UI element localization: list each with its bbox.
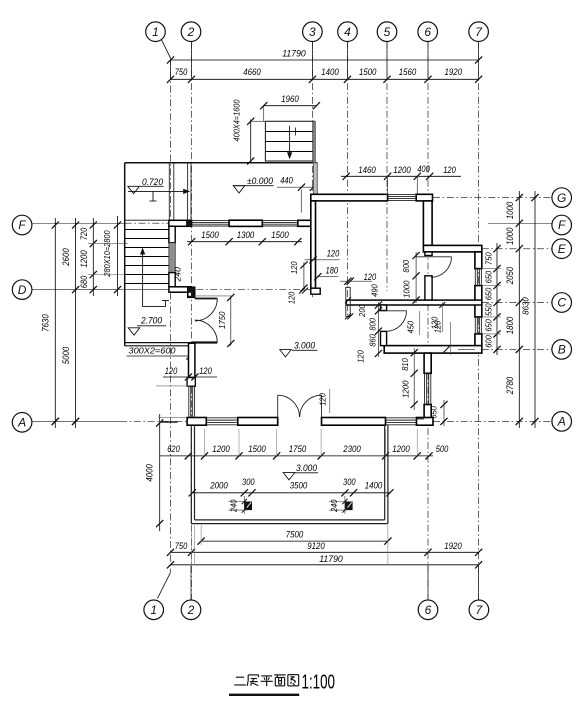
svg-text:1920: 1920 — [445, 67, 463, 77]
svg-text:1200: 1200 — [393, 165, 411, 175]
svg-text:2780: 2780 — [505, 376, 515, 395]
svg-text:620: 620 — [167, 444, 180, 454]
svg-text:1800: 1800 — [505, 316, 515, 334]
svg-text:D: D — [18, 283, 27, 297]
svg-text:440: 440 — [280, 176, 293, 186]
svg-text:3500: 3500 — [290, 481, 308, 491]
svg-text:180: 180 — [326, 266, 339, 276]
svg-text:120: 120 — [356, 350, 366, 363]
svg-text:240: 240 — [330, 499, 339, 513]
svg-text:650: 650 — [483, 319, 493, 332]
svg-text:280X10=2800: 280X10=2800 — [103, 230, 112, 277]
svg-text:2: 2 — [187, 25, 195, 39]
svg-text:1400: 1400 — [365, 481, 383, 491]
svg-text:1200: 1200 — [79, 250, 89, 268]
svg-text:860: 860 — [368, 334, 378, 347]
svg-text:F: F — [18, 218, 26, 232]
svg-text:1: 1 — [152, 25, 159, 39]
svg-text:5000: 5000 — [61, 346, 71, 364]
svg-text:680: 680 — [79, 275, 89, 288]
svg-text:3: 3 — [309, 25, 316, 39]
svg-text:240: 240 — [173, 267, 183, 283]
svg-text:1500: 1500 — [271, 230, 289, 240]
svg-text:750: 750 — [175, 67, 188, 77]
svg-text:650: 650 — [429, 406, 439, 419]
svg-text:3.000: 3.000 — [296, 463, 317, 473]
svg-text:750: 750 — [175, 541, 188, 551]
svg-text:8630: 8630 — [522, 297, 531, 315]
svg-text:1200: 1200 — [212, 444, 230, 454]
svg-text:720: 720 — [79, 227, 89, 240]
svg-text:600: 600 — [483, 335, 493, 348]
svg-text:2600: 2600 — [61, 248, 71, 267]
svg-text:7630: 7630 — [40, 314, 50, 332]
svg-text:C: C — [557, 296, 566, 310]
svg-text:2050: 2050 — [505, 266, 515, 285]
svg-text:450: 450 — [406, 321, 416, 334]
svg-text:7500: 7500 — [286, 530, 304, 540]
svg-text:A: A — [17, 416, 26, 430]
svg-text:4660: 4660 — [243, 67, 261, 77]
svg-text:1200: 1200 — [392, 444, 410, 454]
svg-text:120: 120 — [289, 261, 299, 274]
svg-text:800: 800 — [401, 260, 411, 273]
svg-text:300: 300 — [343, 477, 356, 487]
svg-text:1500: 1500 — [248, 444, 266, 454]
svg-text:3.000: 3.000 — [294, 341, 315, 351]
svg-text:120: 120 — [165, 366, 178, 376]
svg-text:650: 650 — [483, 288, 493, 301]
svg-text:1: 1 — [150, 603, 157, 617]
svg-text:2000: 2000 — [209, 481, 228, 491]
svg-text:120: 120 — [443, 165, 456, 175]
svg-text:400: 400 — [417, 164, 430, 174]
svg-text:5: 5 — [384, 25, 391, 39]
svg-text:1560: 1560 — [399, 67, 417, 77]
svg-text:650: 650 — [483, 271, 493, 284]
svg-text:400X4=1600: 400X4=1600 — [233, 99, 242, 141]
svg-text:1000: 1000 — [505, 201, 515, 219]
svg-text:1500: 1500 — [359, 67, 377, 77]
svg-text:4000: 4000 — [144, 463, 154, 481]
svg-text:800: 800 — [368, 318, 378, 331]
svg-text:1750: 1750 — [289, 444, 307, 454]
svg-text:1460: 1460 — [358, 165, 376, 175]
svg-text:4: 4 — [344, 25, 351, 39]
svg-text:A: A — [557, 415, 566, 429]
svg-text:2.700: 2.700 — [140, 315, 162, 325]
svg-text:200: 200 — [357, 304, 367, 318]
svg-text:120: 120 — [364, 272, 377, 282]
svg-text:490: 490 — [369, 284, 379, 297]
svg-text:810: 810 — [400, 358, 410, 371]
svg-text:750: 750 — [483, 252, 493, 265]
svg-text:300X2=600: 300X2=600 — [129, 345, 176, 355]
svg-text:1000: 1000 — [402, 280, 412, 298]
svg-text:1960: 1960 — [281, 94, 299, 104]
svg-text:6: 6 — [424, 25, 431, 39]
svg-text:240: 240 — [229, 499, 238, 513]
svg-text:120: 120 — [318, 393, 328, 406]
svg-text:11790: 11790 — [282, 48, 306, 58]
svg-text:1:100: 1:100 — [302, 671, 336, 694]
svg-text:120: 120 — [433, 320, 443, 333]
svg-text:2300: 2300 — [342, 444, 361, 454]
svg-text:500: 500 — [436, 444, 449, 454]
svg-text:11790: 11790 — [319, 554, 343, 564]
svg-text:6: 6 — [425, 603, 432, 617]
svg-text:2: 2 — [187, 603, 195, 617]
svg-text:9120: 9120 — [307, 541, 325, 551]
svg-text:120: 120 — [327, 249, 340, 259]
svg-text:550: 550 — [483, 303, 493, 316]
svg-text:1400: 1400 — [321, 67, 339, 77]
svg-text:E: E — [558, 242, 567, 256]
svg-text:1750: 1750 — [217, 311, 227, 329]
svg-text:1300: 1300 — [237, 230, 255, 240]
svg-text:±0.000: ±0.000 — [247, 176, 273, 186]
svg-text:1000: 1000 — [505, 227, 515, 245]
svg-text:1500: 1500 — [201, 230, 219, 240]
svg-text:B: B — [558, 343, 566, 357]
svg-text:G: G — [557, 191, 566, 205]
svg-text:1920: 1920 — [444, 541, 462, 551]
svg-text:120: 120 — [286, 291, 296, 304]
svg-text:1200: 1200 — [400, 380, 410, 398]
svg-text:0.720: 0.720 — [142, 177, 163, 187]
svg-text:F: F — [558, 218, 566, 232]
svg-text:120: 120 — [199, 366, 212, 376]
svg-text:300: 300 — [242, 477, 255, 487]
